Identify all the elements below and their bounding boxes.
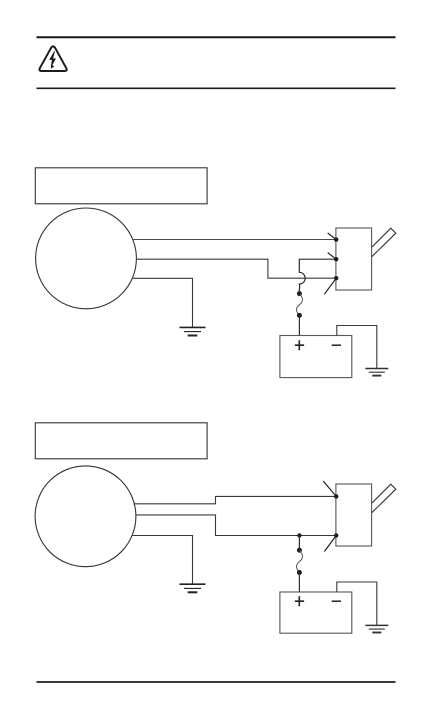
pin 1 dot: [334, 494, 338, 498]
wire A (motor to switch pin 1): [134, 496, 336, 503]
fusible link squiggle: [296, 294, 302, 316]
bottom rule: [37, 681, 396, 683]
wire to battery + terminal: [298, 573, 300, 593]
junction dot on wire B: [297, 533, 301, 537]
motor circle M1: [36, 208, 137, 309]
minus sign: [332, 600, 341, 602]
label box 2: [35, 423, 207, 459]
switch body S2: [336, 484, 372, 546]
pin 2 dot: [334, 257, 338, 261]
plus sign: [295, 596, 304, 606]
top rule: [37, 36, 396, 38]
motor circle M2: [35, 466, 136, 567]
warning triangle: [39, 46, 66, 71]
wire to battery + terminal: [298, 315, 300, 335]
pin 2 dot: [334, 533, 338, 537]
wire B (motor to switch pin 3): [136, 259, 336, 278]
wire down to fusible link: [298, 536, 300, 551]
fusible link top dot: [297, 548, 302, 553]
fusible link squiggle: [296, 550, 302, 572]
battery negative to ground wire: [337, 582, 377, 625]
pin 1 dot: [334, 237, 338, 241]
wire from switch pin 2 to battery + (with hop over wire B): [299, 259, 335, 293]
pin 3 dot: [334, 276, 338, 280]
lightning bolt: [50, 51, 56, 67]
wire A (top, motor to switch pin 1): [133, 239, 336, 241]
label box 1: [35, 168, 207, 204]
pin 2 contact slash: [324, 536, 336, 552]
wire B (motor to switch pin 2): [136, 515, 336, 536]
junction dot (fusible link top): [297, 291, 302, 296]
pin 2 contact slash: [328, 253, 337, 260]
fusible link bottom dot: [297, 570, 302, 575]
ground (battery side): [365, 369, 388, 376]
plus sign: [295, 340, 304, 350]
pin 3 contact slash: [324, 278, 336, 294]
motor ground wire: [132, 536, 193, 585]
motor ground wire: [133, 278, 193, 327]
pin 1 contact slash: [323, 481, 336, 496]
switch body S1: [336, 228, 372, 290]
battery negative to ground wire: [337, 326, 377, 369]
bolt arrowhead: [51, 65, 55, 69]
ground (motor side): [180, 327, 206, 335]
switch lever: [372, 228, 396, 256]
battery B1: [280, 336, 352, 378]
switch lever: [372, 484, 396, 512]
pin 1 contact slash: [328, 233, 337, 240]
ground (battery side): [365, 625, 388, 632]
fusible link bottom dot: [297, 313, 302, 318]
second rule: [37, 87, 396, 89]
minus sign: [332, 344, 341, 346]
ground (motor side): [180, 584, 206, 592]
battery B2: [280, 592, 352, 633]
